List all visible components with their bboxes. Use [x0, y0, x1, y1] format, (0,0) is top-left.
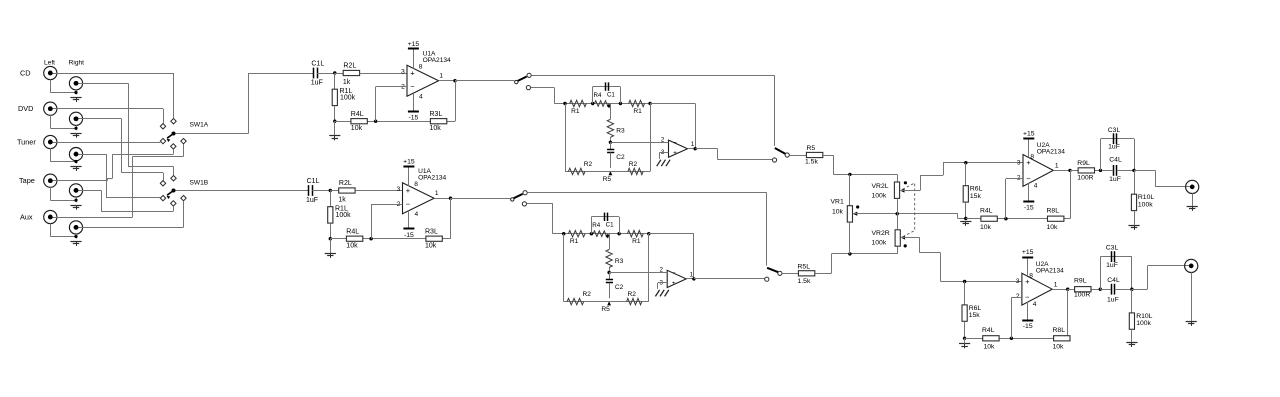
svg-text:R3L: R3L: [425, 229, 438, 236]
svg-text:100k: 100k: [872, 239, 887, 246]
svg-text:C1: C1: [607, 92, 615, 99]
svg-text:C3L: C3L: [1108, 127, 1121, 134]
svg-text:4: 4: [1033, 301, 1037, 308]
svg-text:R4: R4: [594, 92, 602, 99]
svg-text:3: 3: [397, 186, 401, 193]
svg-text:C4L: C4L: [1109, 157, 1122, 164]
svg-text:−: −: [673, 140, 677, 147]
svg-text:C1L: C1L: [311, 60, 324, 67]
svg-text:C4L: C4L: [1107, 277, 1120, 284]
svg-text:100k: 100k: [1136, 320, 1151, 327]
svg-text:1k: 1k: [338, 196, 346, 203]
svg-text:2: 2: [401, 84, 405, 91]
svg-text:2: 2: [1016, 293, 1020, 300]
svg-text:R8L: R8L: [1047, 207, 1060, 214]
svg-text:1: 1: [691, 141, 695, 148]
svg-text:Tape: Tape: [19, 176, 35, 185]
svg-text:8: 8: [1030, 154, 1034, 161]
svg-text:Left: Left: [44, 59, 55, 66]
svg-text:R2: R2: [582, 291, 591, 298]
svg-text:R5: R5: [601, 306, 610, 313]
svg-text:R10L: R10L: [1136, 313, 1152, 320]
svg-text:100R: 100R: [1077, 174, 1093, 181]
svg-text:10k: 10k: [980, 224, 992, 231]
svg-text:R1: R1: [632, 238, 641, 245]
svg-text:R3L: R3L: [430, 111, 443, 118]
svg-text:OPA2134: OPA2134: [418, 175, 446, 182]
svg-text:R9L: R9L: [1074, 278, 1087, 285]
svg-text:1uF: 1uF: [1109, 176, 1121, 183]
svg-text:R9L: R9L: [1077, 160, 1090, 167]
svg-text:3: 3: [1017, 159, 1021, 166]
svg-text:VR1: VR1: [831, 199, 844, 206]
svg-text:+: +: [406, 186, 411, 195]
svg-text:SW1A: SW1A: [190, 122, 209, 129]
svg-text:+15: +15: [1022, 249, 1034, 256]
svg-text:10k: 10k: [346, 243, 358, 250]
svg-text:R1: R1: [633, 108, 642, 115]
svg-text:R5: R5: [603, 176, 612, 183]
svg-text:10k: 10k: [832, 208, 844, 215]
svg-text:1uF: 1uF: [1107, 296, 1119, 303]
svg-text:R2L: R2L: [339, 180, 352, 187]
svg-text:+15: +15: [408, 41, 420, 48]
svg-text:1: 1: [1055, 163, 1059, 170]
svg-text:R4L: R4L: [351, 111, 364, 118]
svg-text:−: −: [410, 82, 415, 91]
svg-text:R1: R1: [570, 238, 579, 245]
svg-text:+: +: [410, 68, 415, 77]
svg-text:VR2R: VR2R: [872, 230, 890, 237]
svg-text:VR2L: VR2L: [872, 183, 889, 190]
svg-text:1uF: 1uF: [311, 80, 323, 87]
svg-text:C1: C1: [606, 222, 614, 229]
svg-text:8: 8: [414, 181, 418, 188]
svg-text:R2L: R2L: [343, 63, 356, 70]
svg-text:R10L: R10L: [1138, 194, 1154, 201]
svg-text:4: 4: [415, 211, 419, 218]
svg-text:10k: 10k: [425, 243, 437, 250]
svg-text:10k: 10k: [351, 125, 363, 132]
svg-text:CD: CD: [20, 68, 31, 77]
svg-text:R4: R4: [592, 222, 600, 229]
svg-text:Right: Right: [69, 59, 85, 66]
svg-text:10k: 10k: [430, 125, 442, 132]
svg-text:-15: -15: [1024, 204, 1034, 211]
svg-text:1uF: 1uF: [306, 197, 318, 204]
svg-text:4: 4: [1034, 182, 1038, 189]
svg-text:1: 1: [439, 72, 443, 79]
svg-text:4: 4: [419, 93, 423, 100]
svg-text:R2: R2: [584, 161, 593, 168]
svg-text:100k: 100k: [336, 212, 352, 219]
svg-text:-15: -15: [408, 115, 418, 122]
svg-text:1k: 1k: [343, 79, 351, 86]
svg-text:C2: C2: [615, 284, 624, 291]
svg-text:R1: R1: [571, 108, 580, 115]
svg-text:R6L: R6L: [970, 186, 983, 193]
svg-text:−: −: [1025, 293, 1030, 302]
svg-text:+: +: [672, 280, 676, 287]
svg-text:+15: +15: [403, 158, 415, 165]
svg-text:-15: -15: [1023, 323, 1033, 330]
svg-text:SW1B: SW1B: [190, 180, 209, 187]
svg-text:8: 8: [1029, 272, 1033, 279]
svg-text:R5L: R5L: [798, 263, 811, 270]
svg-text:3: 3: [1016, 278, 1020, 285]
svg-text:10k: 10k: [1047, 224, 1059, 231]
svg-text:8: 8: [419, 63, 423, 70]
svg-text:100k: 100k: [872, 192, 887, 199]
svg-text:100k: 100k: [1138, 202, 1153, 209]
svg-text:OPA2134: OPA2134: [1036, 267, 1064, 274]
svg-text:C1L: C1L: [307, 178, 320, 185]
svg-text:100k: 100k: [340, 95, 356, 102]
svg-text:R8L: R8L: [1053, 327, 1066, 334]
svg-text:15k: 15k: [969, 312, 981, 319]
svg-text:−: −: [672, 270, 676, 277]
svg-text:1uF: 1uF: [1106, 262, 1118, 269]
svg-text:R2: R2: [627, 291, 636, 298]
svg-text:R4L: R4L: [346, 229, 359, 236]
svg-text:1: 1: [1054, 281, 1058, 288]
svg-text:2: 2: [660, 267, 664, 274]
svg-text:R3: R3: [616, 128, 625, 135]
svg-text:C3L: C3L: [1106, 245, 1119, 252]
svg-text:Tuner: Tuner: [17, 137, 36, 146]
svg-text:1uF: 1uF: [1108, 144, 1120, 151]
svg-text:2: 2: [661, 137, 665, 144]
svg-text:1: 1: [435, 190, 439, 197]
svg-text:R4L: R4L: [980, 207, 993, 214]
svg-text:10k: 10k: [984, 344, 996, 351]
svg-text:R3: R3: [615, 258, 624, 265]
svg-text:1: 1: [690, 271, 694, 278]
svg-text:1.5k: 1.5k: [805, 159, 818, 166]
svg-text:1.5k: 1.5k: [798, 278, 811, 285]
svg-text:DVD: DVD: [18, 104, 33, 113]
svg-text:R6L: R6L: [969, 305, 982, 312]
svg-text:+15: +15: [1023, 130, 1035, 137]
svg-text:2: 2: [1017, 174, 1021, 181]
svg-text:OPA2134: OPA2134: [1037, 149, 1065, 156]
svg-text:Aux: Aux: [20, 212, 33, 221]
svg-text:R4L: R4L: [982, 327, 995, 334]
svg-text:−: −: [1026, 174, 1031, 183]
svg-text:3: 3: [401, 69, 405, 76]
svg-text:R2: R2: [629, 161, 638, 168]
svg-text:OPA2134: OPA2134: [423, 57, 451, 64]
svg-text:10k: 10k: [1053, 344, 1065, 351]
svg-text:C2: C2: [616, 154, 625, 161]
svg-text:15k: 15k: [970, 193, 982, 200]
svg-text:R5: R5: [807, 145, 816, 152]
svg-text:100R: 100R: [1074, 291, 1090, 298]
svg-text:−: −: [406, 200, 411, 209]
svg-text:+: +: [673, 150, 677, 157]
